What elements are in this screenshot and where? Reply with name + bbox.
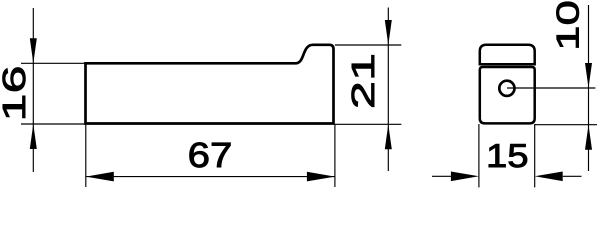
dimension 15: left arrowhead	[451, 172, 479, 182]
dimension 67: left arrowhead	[86, 172, 114, 182]
dimension 16: extension line top	[21, 62, 86, 64]
dimension 16: label	[3, 68, 26, 118]
dimension 10: upper arrowhead	[585, 63, 592, 88]
dimension 15: right arrowhead	[535, 172, 563, 182]
dimension 67: label	[190, 143, 231, 168]
dimension 67: right arrowhead	[307, 172, 335, 182]
dimension 67: dimension line	[86, 176, 335, 178]
dimension 67: extension line left	[85, 124, 87, 187]
dimension 10: dimension line	[588, 5, 590, 171]
dimension 21: upper arrowhead	[385, 20, 392, 45]
part outline: side view of hook	[86, 45, 334, 124]
dimension 67: extension line right	[334, 124, 336, 187]
dimension 21: dimension line	[387, 8, 389, 172]
dimension 15: extension line left	[478, 124, 480, 187]
dimension 21: extension line bottom	[335, 123, 402, 125]
dimension 16: upper arrowhead	[30, 38, 37, 63]
dimension 10: extension line from hole centre	[507, 87, 595, 89]
dimension 21: lower arrowhead	[385, 124, 392, 149]
dimension 16: lower arrowhead	[30, 124, 37, 149]
end view: body rectangle	[480, 67, 535, 123]
dimension 15: right dimension line	[563, 175, 582, 177]
end view: top lip rectangle	[480, 45, 535, 65]
dimension 15: label	[489, 144, 527, 167]
dimension 21: extension line top	[335, 44, 401, 46]
dimension 10: lower arrowhead	[585, 125, 592, 150]
end view: hole	[499, 81, 514, 96]
dimension 16: extension line bottom	[21, 123, 86, 125]
dimension 15: extension line right	[534, 124, 536, 187]
dimension 16: dimension line	[32, 8, 34, 172]
dimension 10: label	[557, 2, 579, 48]
dimension 21: label	[352, 55, 374, 106]
dimension 15: left dimension line	[432, 175, 451, 177]
dimension 10: extension line from bottom	[535, 124, 597, 126]
